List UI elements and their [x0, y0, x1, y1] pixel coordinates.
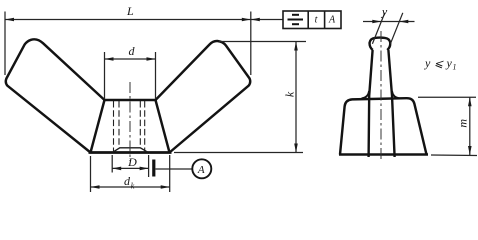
dimension L extension line right — [250, 12, 252, 76]
dimension k arrow down — [294, 144, 298, 153]
dimension L extension line left — [4, 12, 6, 76]
dimension L arrow right — [242, 18, 251, 22]
svg-text:k: k — [283, 91, 297, 97]
wing blade left edge — [369, 50, 373, 157]
dimension y slant extension right — [390, 13, 402, 44]
dimension D arrow left — [112, 167, 121, 171]
dimension dk extension line right — [169, 155, 171, 192]
dimension L line — [5, 19, 251, 21]
svg-text:d: d — [129, 44, 136, 58]
symmetry symbol top line — [292, 14, 299, 16]
dimension d arrow left — [105, 57, 114, 61]
dimension y line — [363, 21, 415, 23]
svg-text:D: D — [127, 155, 137, 169]
svg-text:y: y — [424, 56, 431, 70]
wing blade right edge — [388, 50, 394, 157]
dimension y arrow left (outside pointing right) — [372, 20, 381, 24]
svg-text:⩽: ⩽ — [434, 58, 444, 70]
dimension y slant extension left — [372, 13, 384, 44]
tolerance frame divider 1 — [307, 11, 309, 29]
dimension y arrow right (outside pointing left) — [399, 20, 408, 24]
svg-text:y: y — [446, 56, 453, 70]
dimension dk arrow right — [161, 185, 170, 189]
vertical center line (front view) — [129, 82, 131, 161]
dimension k top extension line — [219, 41, 306, 43]
dimension dk extension line left — [90, 156, 92, 192]
dimension d arrow right — [147, 57, 156, 61]
svg-text:L: L — [126, 4, 134, 18]
dimension d extension line left — [104, 52, 106, 99]
wing top bead cap — [370, 38, 391, 50]
datum A leader — [156, 168, 193, 170]
thread hole hidden line left inner — [118, 101, 120, 148]
svg-text:k: k — [131, 182, 135, 191]
dimension k bottom extension line — [174, 152, 303, 154]
thread hole hidden line right outer — [144, 101, 146, 152]
dimension d line — [105, 58, 156, 60]
dimension k arrow up — [294, 42, 298, 51]
datum A thick bar — [152, 160, 155, 177]
dimension D line — [112, 167, 148, 169]
dimension dk arrow left — [91, 185, 100, 189]
dimension D extension line left — [111, 155, 113, 173]
svg-text:A: A — [197, 164, 205, 176]
datum A circle — [192, 159, 211, 178]
dimension D arrow right — [140, 167, 149, 171]
blade root fillet left — [362, 91, 370, 98]
dimension m arrow up — [468, 97, 472, 106]
nut body trapezoid — [91, 100, 170, 153]
tolerance frame leader arrow — [251, 18, 260, 22]
dimension k line — [295, 42, 297, 153]
tolerance frame leader — [251, 19, 283, 21]
symmetry symbol bottom line — [292, 23, 299, 25]
side view base bottom line — [339, 153, 428, 156]
tolerance frame box — [283, 11, 341, 29]
dimension m bottom extension line — [431, 154, 477, 157]
countersink chamfer — [113, 148, 148, 153]
symmetry symbol middle line — [288, 19, 304, 21]
dimension D extension line right — [148, 155, 150, 177]
svg-text:m: m — [455, 119, 469, 128]
svg-text:1: 1 — [453, 63, 457, 72]
bearing face bottom line — [89, 151, 172, 154]
blade root fillet right — [392, 91, 400, 98]
left wing — [6, 39, 105, 152]
dimension dk line — [91, 186, 170, 188]
svg-text:t: t — [315, 15, 318, 26]
tolerance frame divider 2 — [324, 11, 326, 29]
dimension m arrow down — [468, 146, 472, 155]
right wing — [156, 41, 251, 153]
dimension L arrow left — [5, 18, 14, 22]
svg-text:y: y — [381, 5, 388, 19]
dimension m line — [469, 97, 471, 155]
dimension d extension line right — [155, 52, 157, 99]
side view center line — [380, 31, 382, 160]
thread hole hidden line left outer — [113, 101, 115, 152]
svg-text:A: A — [328, 15, 336, 26]
thread hole hidden line right inner — [139, 101, 141, 148]
dimension m top extension line — [418, 96, 476, 98]
side view base outline — [340, 98, 427, 154]
